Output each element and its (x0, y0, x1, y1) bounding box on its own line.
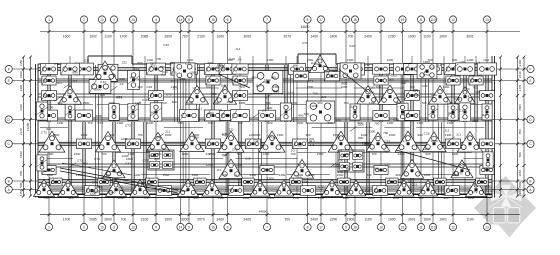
svg-text:JL3: JL3 (444, 129, 449, 133)
svg-text:CT3: CT3 (384, 140, 390, 144)
svg-text:2400: 2400 (364, 34, 372, 38)
pile cap 2-pile at 49,80 (42, 76, 56, 85)
svg-text:JL3: JL3 (161, 73, 166, 77)
svg-text:700: 700 (43, 196, 48, 200)
pile cap 2-pile at 240,96 (232, 91, 247, 101)
svg-text:10: 10 (379, 226, 383, 230)
vertical grade beam x=176 (174, 65, 176, 122)
pile cap 2-pile at 355,112 (350, 104, 360, 120)
pile cap 2-pile at 189,69 (181, 64, 198, 75)
pile cap 3-pile at 212,189 (202, 180, 222, 196)
leader line (253, 113, 260, 118)
svg-text:15: 15 (211, 226, 215, 230)
svg-text:1500: 1500 (47, 152, 54, 156)
svg-text:3000: 3000 (243, 34, 251, 38)
pile cap 2-pile at 296,182 (290, 178, 302, 186)
dim tick (486, 30, 489, 33)
secondary beam segment (422, 174, 470, 176)
vertical grade beam x=240 (238, 122, 240, 194)
svg-text:3000: 3000 (181, 217, 189, 221)
svg-text:13200: 13200 (26, 122, 30, 131)
svg-text:1500: 1500 (81, 133, 88, 137)
svg-text:1200: 1200 (213, 101, 220, 105)
svg-text:1300: 1300 (417, 121, 424, 125)
pile cap 3-pile at 470,143 (457, 131, 482, 152)
dim tick (499, 188, 502, 191)
vertical grade beam x=84 (82, 122, 84, 194)
secondary beam segment (164, 127, 203, 129)
svg-text:1400: 1400 (216, 217, 224, 221)
dim tick (516, 142, 519, 145)
svg-text:700: 700 (48, 106, 53, 110)
svg-text:2400: 2400 (518, 189, 522, 196)
pile cap 2-pile at 476,80 (469, 76, 483, 85)
svg-text:1200: 1200 (120, 137, 127, 141)
svg-text:1500: 1500 (293, 196, 300, 200)
svg-text:2100: 2100 (197, 34, 205, 38)
svg-text:1600: 1600 (216, 34, 224, 38)
svg-text:2400: 2400 (330, 34, 338, 38)
svg-text:1200: 1200 (206, 163, 213, 167)
svg-text:600: 600 (160, 65, 165, 69)
svg-text:700: 700 (239, 85, 244, 89)
svg-text:J-3: J-3 (485, 184, 490, 188)
svg-text:1300: 1300 (264, 78, 271, 82)
pile cap 3-pile at 341,143 (328, 131, 354, 152)
secondary beam segment (236, 158, 298, 160)
svg-text:DL2: DL2 (134, 67, 140, 71)
grid bubble 10 top (377, 16, 384, 23)
svg-text:1500: 1500 (126, 157, 133, 161)
grid bubble C left (5, 140, 12, 147)
svg-text:CT1: CT1 (142, 158, 148, 162)
svg-text:CT2: CT2 (472, 190, 478, 194)
dim tick (179, 213, 182, 216)
svg-text:JL1: JL1 (349, 105, 354, 109)
leader line (265, 94, 272, 99)
grade beam row y=69 (38, 67, 492, 69)
pile cap 3-pile at 428,189 (418, 180, 437, 196)
secondary beam segment (416, 127, 484, 129)
grid bubble 17 bottom (317, 223, 324, 230)
leader line (350, 127, 357, 132)
pile cap 2-pile at 381,80 (374, 76, 388, 85)
svg-text:800: 800 (252, 75, 257, 79)
row line C (12, 143, 526, 145)
dim tick (132, 213, 135, 216)
pile cap 3-pile at 70,96 (59, 85, 82, 104)
pile cap 3-pile at 378,143 (366, 132, 390, 151)
grid bubble 17 top (317, 16, 324, 23)
column line 19 (402, 23, 404, 223)
svg-text:12: 12 (100, 226, 104, 230)
svg-text:1300: 1300 (155, 152, 162, 156)
vertical grade beam x=402.5 (400, 65, 402, 194)
svg-text:1500: 1500 (173, 186, 180, 190)
svg-text:700: 700 (383, 150, 388, 154)
svg-text:CT1: CT1 (395, 180, 401, 184)
watermark logo diamond (474, 176, 536, 238)
dim tick (499, 79, 502, 82)
pile cap 2-pile at 487,69 (477, 63, 496, 75)
svg-text:700: 700 (290, 152, 295, 156)
svg-text:1600: 1600 (164, 217, 172, 221)
pile cap 2-pile at 346,69 (338, 64, 355, 75)
svg-text:C33: C33 (163, 43, 169, 47)
svg-text:JL1: JL1 (57, 81, 62, 85)
grid bubble F left (5, 65, 12, 72)
svg-text:ZJ2: ZJ2 (321, 95, 326, 99)
column line 9 (345, 23, 347, 223)
pile cap 2-pile at 453,80 (446, 76, 460, 85)
svg-text:700: 700 (221, 133, 226, 137)
vertical grade beam x=156 (154, 65, 156, 122)
svg-text:DL2: DL2 (94, 190, 100, 194)
svg-text:1500: 1500 (333, 133, 340, 137)
pile cap 2-pile at 213,144 (205, 139, 220, 149)
svg-text:12: 12 (100, 18, 104, 22)
svg-text:700: 700 (284, 217, 290, 221)
svg-text:800: 800 (211, 92, 216, 96)
pile cap 2-pile at 200,182 (194, 178, 206, 186)
svg-text:700: 700 (227, 58, 232, 62)
svg-text:900: 900 (103, 67, 108, 71)
pile cap 3-pile at 332,189 (321, 179, 342, 196)
svg-text:700: 700 (237, 121, 242, 125)
svg-text:CT1: CT1 (63, 92, 69, 96)
leader line (448, 137, 455, 142)
svg-text:JL1: JL1 (436, 63, 441, 67)
svg-text:900: 900 (418, 196, 423, 200)
pile cap 2-pile at 355,69 (346, 63, 365, 75)
svg-text:ZJ2: ZJ2 (228, 128, 233, 132)
column line 2 (83, 23, 85, 223)
svg-text:2400: 2400 (243, 217, 251, 221)
svg-text:1500: 1500 (74, 152, 81, 156)
svg-text:C18: C18 (306, 140, 312, 144)
svg-text:900: 900 (327, 121, 332, 125)
svg-text:DL2: DL2 (190, 183, 196, 187)
svg-text:1100: 1100 (466, 217, 473, 221)
pile cap 2-pile at 42,111 (36, 102, 47, 120)
svg-text:1900: 1900 (439, 34, 447, 38)
column line (intermediate) (475, 56, 477, 196)
dim tick (420, 30, 423, 33)
column line (intermediate) (443, 56, 445, 196)
svg-text:1500: 1500 (163, 173, 170, 177)
svg-text:700: 700 (472, 85, 477, 89)
svg-text:1500: 1500 (453, 173, 460, 177)
svg-text:1100: 1100 (364, 217, 371, 221)
svg-text:19: 19 (401, 18, 405, 22)
svg-text:15: 15 (211, 18, 215, 22)
svg-text:1200: 1200 (398, 152, 405, 156)
column line 15 (212, 23, 214, 223)
svg-text:600: 600 (348, 76, 353, 80)
svg-text:CT3: CT3 (125, 123, 131, 127)
pile cap 2-pile at 114,112 (109, 104, 120, 121)
grid bubble A right (527, 186, 534, 193)
svg-text:12: 12 (451, 226, 455, 230)
pile cap 2-pile at 381,170 (374, 166, 388, 175)
column line (intermediate) (367, 56, 369, 196)
column line 12 (452, 23, 454, 223)
svg-text:CT1: CT1 (385, 162, 391, 166)
svg-text:2085: 2085 (141, 34, 149, 38)
svg-text:JL1: JL1 (456, 133, 461, 137)
svg-text:700: 700 (156, 57, 161, 61)
row line A (12, 189, 526, 191)
diagonal strap beam left (60, 168, 178, 190)
svg-text:F: F (8, 67, 10, 71)
svg-text:1500: 1500 (268, 196, 275, 200)
left dim line outer (23, 57, 25, 196)
pile cap 2-pile at 228,69 (219, 64, 236, 75)
svg-text:1150: 1150 (19, 189, 23, 196)
pile cap 3-pile at 225,96 (213, 85, 236, 104)
pile cap 2-pile at 412,69 (404, 64, 421, 75)
svg-text:1100: 1100 (104, 34, 111, 38)
svg-text:C33: C33 (332, 69, 338, 73)
vertical grade beam x=465 (463, 65, 465, 122)
dim tick (499, 180, 502, 183)
svg-text:J-3: J-3 (237, 58, 242, 62)
grade beam row y=119.5 (38, 117, 492, 119)
svg-text:1600: 1600 (423, 217, 431, 221)
pile cap 3-pile at 105,72 (92, 61, 117, 81)
pile cap 2-pile at 433,112 (428, 104, 438, 120)
svg-text:2085: 2085 (89, 217, 97, 221)
svg-text:700: 700 (236, 152, 241, 156)
svg-text:1500: 1500 (218, 196, 225, 200)
svg-text:900: 900 (267, 121, 272, 125)
svg-text:CT3: CT3 (302, 180, 308, 184)
svg-text:CT1: CT1 (94, 157, 100, 161)
dim tick (48, 30, 51, 33)
svg-text:1150: 1150 (19, 59, 23, 66)
pile cap 2-pile at 286,112 (280, 103, 291, 121)
core cluster stair mid-right lower (338, 150, 364, 172)
svg-text:1200: 1200 (467, 58, 474, 62)
pile cap 3-pile at 114,170 (103, 160, 125, 178)
column line 3 (113, 23, 115, 223)
grid bubble 6 top (224, 16, 231, 23)
svg-text:900: 900 (401, 81, 406, 85)
dim tick (516, 118, 519, 121)
grid bubble 15 bottom (209, 223, 216, 230)
svg-text:1902: 1902 (439, 217, 447, 221)
svg-text:1500: 1500 (297, 121, 304, 125)
dim tick (516, 94, 519, 97)
svg-text:JL1: JL1 (464, 94, 469, 98)
svg-text:13: 13 (485, 18, 489, 22)
bottom band beam 193.5 (38, 193, 492, 195)
svg-text:18: 18 (353, 226, 357, 230)
pile cap 2-pile at 412,116 (404, 111, 419, 121)
grid bubble 2 top (80, 16, 87, 23)
secondary beam segment (422, 152, 472, 154)
svg-text:2: 2 (83, 18, 85, 22)
row line F (12, 68, 526, 70)
grid bubble 6 bottom (224, 223, 231, 230)
svg-text:C33: C33 (461, 163, 467, 167)
svg-text:J-3: J-3 (297, 143, 302, 147)
column line (intermediate) (239, 56, 241, 196)
svg-text:JL3: JL3 (220, 191, 225, 195)
svg-text:1300: 1300 (250, 173, 257, 177)
dim tick (22, 180, 25, 183)
pile cap 2-pile at 134,80 (128, 71, 140, 90)
svg-text:1300: 1300 (117, 121, 124, 125)
pile cap 2-pile at 488,160 (483, 152, 493, 168)
pile cap 3-pile at 192,143 (180, 132, 204, 152)
svg-text:1700: 1700 (120, 34, 128, 38)
svg-text:14: 14 (179, 226, 183, 230)
svg-text:1700: 1700 (63, 217, 71, 221)
diagonal brace top mid (218, 74, 250, 88)
pile cap 2-pile at 240,80 (233, 76, 247, 85)
pile cap 2-pile at 381,69 (373, 64, 390, 74)
column line 13 (132, 23, 134, 223)
pile cap 3-pile at 44,189 (34, 179, 55, 196)
pile cap 2-pile at 156,69 (147, 63, 166, 75)
svg-text:1300: 1300 (239, 101, 246, 105)
pile cap 3-pile at 404,189 (394, 180, 414, 196)
grid bubble 1 bottom (45, 223, 52, 230)
pile cap 3-pile at 434,143 (422, 132, 446, 152)
svg-text:JL3: JL3 (72, 79, 77, 83)
pile cap 2-pile at 180,69 (171, 63, 190, 75)
svg-text:CT2: CT2 (97, 121, 103, 125)
vertical grade beam x=227.5 (225, 122, 227, 194)
svg-text:1300: 1300 (445, 133, 452, 137)
svg-text:700: 700 (366, 173, 371, 177)
column line 5 (188, 23, 190, 223)
svg-text:700: 700 (168, 196, 173, 200)
svg-text:5: 5 (188, 226, 190, 230)
dim tick (516, 68, 519, 71)
svg-text:1200: 1200 (249, 133, 256, 137)
pile cap 3-pile at 368,96 (357, 86, 380, 105)
svg-text:700: 700 (409, 85, 414, 89)
top dimension line (40, 31, 520, 33)
pile cap 2-pile at 213,69 (205, 64, 222, 75)
dim tick (499, 195, 502, 198)
svg-text:500: 500 (19, 182, 23, 187)
dim tick (499, 142, 502, 145)
dim tick (226, 30, 229, 33)
svg-text:13: 13 (131, 18, 135, 22)
vertical grade beam x=114 (112, 122, 114, 194)
svg-text:800: 800 (83, 162, 88, 166)
pile cap 2-pile at 402,69 (393, 63, 411, 75)
grade beam row y=143.8 (38, 141, 492, 143)
svg-text:1200: 1200 (412, 93, 419, 97)
bottom dimension line (40, 214, 520, 216)
pile cap 3-pile at 140,189 (130, 180, 150, 197)
svg-text:700: 700 (348, 34, 354, 38)
svg-text:C18: C18 (393, 117, 399, 121)
pile cap 3-pile at 440,96 (429, 86, 452, 105)
svg-text:1500: 1500 (53, 133, 60, 137)
svg-text:1: 1 (48, 226, 50, 230)
svg-text:1200: 1200 (118, 196, 125, 200)
secondary beam segment (312, 127, 372, 129)
pile cap 2-pile at 228,116 (220, 111, 236, 121)
pile cap 2-pile at 152,182 (146, 178, 158, 186)
svg-text:C18: C18 (142, 98, 148, 102)
svg-text:2600: 2600 (104, 217, 112, 221)
svg-text:1200: 1200 (368, 196, 375, 200)
grid bubble A left (5, 186, 12, 193)
dim tick (432, 213, 435, 216)
dim tick (345, 213, 348, 216)
svg-text:7: 7 (266, 226, 268, 230)
dim tick (22, 94, 25, 97)
svg-text:850: 850 (518, 129, 522, 134)
svg-text:900: 900 (376, 190, 381, 194)
dim tick (101, 30, 104, 33)
svg-text:1900: 1900 (408, 34, 416, 38)
pile cap 3-pile at 284,189 (274, 180, 294, 196)
svg-text:700: 700 (93, 196, 98, 200)
pile cap 2-pile at 92,190 (84, 186, 99, 196)
pile cap 3-pile at 52,143 (39, 131, 65, 152)
dim tick (113, 30, 116, 33)
column line (intermediate) (69, 56, 71, 196)
pile cap 2-pile at 100,86 (89, 80, 111, 94)
secondary beam segment (287, 174, 330, 176)
dim tick (516, 56, 519, 59)
secondary beam segment (180, 158, 223, 160)
svg-text:600: 600 (336, 118, 341, 122)
vertical grade beam x=346 (344, 122, 346, 194)
svg-text:3001: 3001 (408, 217, 416, 221)
svg-text:1200: 1200 (468, 196, 475, 200)
svg-text:2430: 2430 (19, 104, 23, 111)
svg-text:700: 700 (143, 196, 148, 200)
grid bubble 13 top (483, 16, 490, 23)
secondary beam segment (245, 104, 313, 106)
svg-text:9: 9 (345, 226, 347, 230)
column line 110 (432, 23, 434, 223)
svg-text:8: 8 (307, 226, 309, 230)
dim tick (401, 30, 404, 33)
leader line (330, 163, 337, 168)
pile cap 3-pile at 108,143 (95, 132, 120, 152)
secondary beam segment (116, 152, 157, 154)
grid bubble 9 top (342, 16, 349, 23)
pile cap 2-pile at 482,182 (476, 178, 488, 186)
vertical grade beam x=198 (196, 65, 198, 122)
vertical grade beam x=440 (438, 122, 440, 194)
dim tick (499, 118, 502, 121)
svg-text:1500: 1500 (190, 71, 197, 75)
svg-text:CT1: CT1 (77, 159, 83, 163)
pile cap 3-pile at 116,189 (106, 179, 127, 196)
svg-text:6: 6 (227, 18, 229, 22)
grid bubble 13 bottom (483, 223, 490, 230)
svg-text:900: 900 (417, 133, 422, 137)
pile cap 2-pile at 133,112 (128, 104, 138, 120)
row line D (12, 119, 526, 121)
svg-text:3: 3 (113, 226, 115, 230)
svg-text:600: 600 (255, 133, 260, 137)
svg-text:1500: 1500 (267, 177, 274, 181)
column line 13 (486, 23, 488, 223)
svg-text:C33: C33 (185, 62, 191, 66)
svg-text:6: 6 (227, 226, 229, 230)
